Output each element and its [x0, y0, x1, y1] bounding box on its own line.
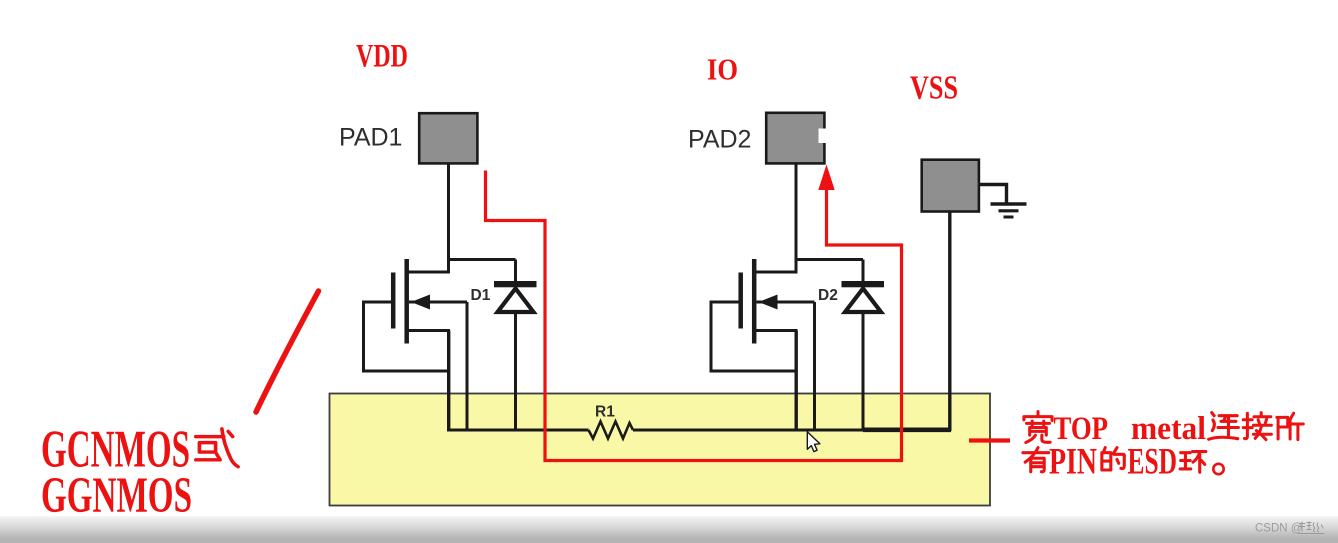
svg-text:ESD: ESD [1128, 442, 1178, 483]
svg-text:PIN: PIN [1049, 442, 1097, 483]
wire Q1 source horizontal [407, 329, 450, 332]
diode D1 bottom vertical to bus [514, 312, 517, 430]
diode D2 top vertical [862, 260, 865, 283]
red ESD current path from PAD1 down through ring [486, 171, 902, 461]
diode D1 top vertical [514, 260, 517, 283]
pad PAD2 square [766, 113, 824, 164]
transistor Q1 channel bar [404, 259, 409, 344]
red arrowhead pointing up at PAD2 [818, 165, 834, 191]
resistor R1 zigzag [589, 422, 634, 439]
wire PAD1 drain vertical [447, 165, 450, 273]
ESD ring metal bus (yellow region) [330, 394, 991, 506]
wire drain branch to diode D2 [795, 258, 864, 261]
svg-text:IO: IO [707, 52, 738, 87]
wire Q2 body down to bus [813, 302, 816, 430]
red callout diagonal line to GCNMOS text [256, 291, 319, 412]
wire Q2 source horizontal [755, 329, 798, 332]
wire PAD2 drain vertical [795, 164, 798, 272]
svg-text:D2: D2 [818, 287, 838, 304]
svg-text:D1: D1 [471, 287, 491, 304]
diode D1 triangle [498, 289, 534, 313]
wire VSS pad down to bus [948, 212, 951, 432]
ground lead from VSS pad [979, 185, 1007, 204]
transistor Q2 drain horizontal [754, 271, 798, 274]
red dash pointer to annotation [969, 438, 1010, 442]
svg-text:VDD: VDD [356, 39, 408, 75]
wire Q1 gate lead [362, 301, 391, 304]
annotation right: red Chinese text line 1 (kuan TOP metal lian jie suo) [1024, 411, 1303, 447]
svg-text:VSS: VSS [910, 70, 958, 107]
wire ESD bus horizontal left of R1 [447, 429, 589, 432]
svg-text:PAD1: PAD1 [339, 124, 402, 152]
pad PAD1 square [419, 113, 477, 163]
transistor Q2 body line with arrow [757, 301, 815, 304]
wire Q1 gate-source tie bottom horizontal [362, 370, 450, 373]
diode D2 cathode bar [842, 281, 885, 287]
wire Q1 gate-source tie left vertical [362, 302, 365, 371]
transistor Q1 body line with arrow [409, 301, 467, 304]
svg-text:R1: R1 [595, 404, 615, 421]
mouse cursor [807, 432, 820, 452]
wire ESD bus horizontal right of R1 [633, 429, 950, 432]
wire Q2 gate lead [710, 301, 739, 304]
ground symbol bars [991, 202, 1027, 206]
transistor Q2 gate bar [738, 273, 743, 329]
diode D1 cathode bar [494, 281, 537, 287]
wire Q2 gate-source tie left vertical [710, 302, 713, 371]
transistor Q1 drain horizontal [406, 271, 450, 274]
transistor Q1 gate bar [391, 273, 396, 329]
svg-text:CSDN @: CSDN @ [1255, 523, 1302, 535]
bottom toolbar gradient bar [0, 516, 1338, 543]
transistor Q2 channel bar [752, 259, 757, 344]
svg-text:PAD2: PAD2 [688, 126, 751, 154]
svg-text:GGNMOS: GGNMOS [41, 468, 192, 524]
wire drain branch to diode D1 [447, 258, 516, 261]
white notch artifact on PAD2 right edge [819, 129, 828, 144]
diode D2 bottom vertical to bus [862, 312, 865, 430]
wire Q1 source/gate down to bus [447, 331, 450, 431]
watermark CSDN @duosi [1255, 522, 1324, 535]
wire bus thick segment D2 to VSS [863, 427, 951, 432]
ideographic full stop [1213, 464, 1223, 474]
wire Q1 body down to bus [466, 302, 469, 430]
diode D2 triangle [845, 289, 881, 313]
wire Q2 gate-source tie bottom horizontal [710, 370, 798, 373]
pad VSS square [922, 160, 979, 212]
CJK glyph HUO (or) after GCNMOS [196, 429, 238, 467]
wire Q2 source/gate down to bus [795, 331, 798, 431]
annotation right: red Chinese text line 2 (you PIN de ESD huan) [1023, 442, 1224, 483]
